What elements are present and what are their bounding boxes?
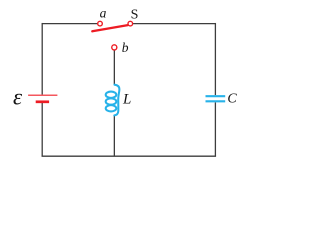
wire: left side lower (battery bottom plate to corner) xyxy=(41,102,43,156)
switch contact b (terminal circle) xyxy=(112,45,117,50)
inductor L coil xyxy=(106,85,120,116)
svg-text:C: C xyxy=(227,92,237,107)
wire: left side upper (to battery top plate) xyxy=(41,23,43,95)
wire: top-right segment (switch S to top-right corner) xyxy=(133,23,216,25)
wire: inductor bottom to bottom wire xyxy=(113,115,115,156)
wire: contact b down to inductor top xyxy=(113,50,115,85)
wire: right side lower (capacitor bottom plate to corner) xyxy=(214,102,216,156)
capacitor C: bottom plate xyxy=(206,100,226,102)
battery EMF source: long positive plate xyxy=(28,94,57,96)
svg-text:b: b xyxy=(122,40,129,55)
switch contact a (open terminal circle) xyxy=(98,21,103,26)
svg-text:S: S xyxy=(131,8,139,23)
wire: top-left segment (corner to contact a) xyxy=(42,23,97,25)
svg-text:a: a xyxy=(100,6,107,21)
svg-text:ε: ε xyxy=(13,85,23,110)
wire: bottom xyxy=(42,155,217,157)
wire: right side upper (to capacitor top plate) xyxy=(214,23,216,95)
switch pivot S (terminal circle) xyxy=(128,21,133,26)
battery EMF source: short negative plate xyxy=(36,100,49,103)
switch S blade (thrown open toward a) xyxy=(92,25,128,31)
capacitor C: top plate xyxy=(206,95,226,97)
svg-text:L: L xyxy=(122,92,131,108)
